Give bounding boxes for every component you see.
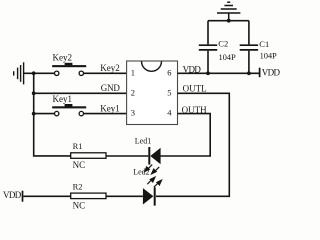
svg-text:R1: R1	[73, 141, 83, 151]
resistor R2	[71, 182, 106, 211]
Led1 emission arrows (down-left)	[145, 165, 160, 174]
svg-text:Key2: Key2	[53, 53, 73, 63]
IC notch	[142, 61, 162, 71]
terminal VDD bottom-left	[3, 190, 23, 202]
svg-text:Key1: Key1	[53, 94, 73, 104]
wire Key2 switch to pin 1	[84, 72, 127, 74]
svg-text:4: 4	[167, 108, 172, 118]
node junction C1/VDD wire	[247, 71, 251, 75]
resistor R1	[71, 141, 106, 170]
wire R2 to Led2 anode	[106, 195, 143, 197]
wire left vertical bus down to R1	[34, 73, 71, 156]
node junction C2/VDD wire	[206, 71, 210, 75]
capacitor C2	[199, 21, 236, 74]
wire GND row bus to pin 2	[34, 92, 127, 94]
node junction bus/GND row	[32, 91, 36, 95]
ground (left earth symbol)	[14, 62, 24, 84]
svg-text:Led2: Led2	[133, 168, 149, 177]
svg-text:GND: GND	[101, 83, 121, 93]
node junction bus/Key2 row	[32, 71, 36, 75]
terminal VDD right	[260, 68, 281, 78]
svg-text:5: 5	[167, 87, 171, 97]
svg-text:Key1: Key1	[100, 103, 120, 113]
svg-text:VDD: VDD	[262, 68, 280, 78]
wire Key1 switch to pin 3	[84, 113, 127, 115]
wire OUTL loop pin5 to Led2 cathode	[156, 93, 229, 196]
wire cap top rail	[208, 20, 249, 22]
capacitor C1	[240, 21, 277, 74]
op-amp U1 (IC body)	[127, 61, 178, 125]
svg-text:C2: C2	[218, 39, 228, 49]
svg-text:1: 1	[131, 67, 135, 77]
wire VDD terminal to R2	[23, 195, 70, 197]
svg-text:104P: 104P	[219, 52, 236, 62]
node junction ground/top rail	[227, 19, 231, 23]
svg-text:NC: NC	[73, 201, 86, 210]
pushbutton Key1	[52, 94, 86, 116]
svg-text:C1: C1	[259, 39, 269, 49]
LED Led2 (points right)	[143, 187, 156, 205]
svg-text:104P: 104P	[260, 51, 277, 61]
node junction bus/Key1 row	[32, 112, 36, 116]
svg-text:Key2: Key2	[100, 63, 120, 73]
svg-text:3: 3	[131, 108, 135, 118]
wire ground to bus (Key2 row left)	[24, 72, 55, 74]
svg-text:2: 2	[131, 87, 135, 97]
ground (top earth symbol)	[217, 2, 240, 21]
wire bus to Key1 switch	[34, 113, 55, 115]
Led2 emission arrows (up-right)	[147, 177, 161, 187]
pushbutton Key2	[52, 53, 86, 76]
svg-text:6: 6	[167, 67, 171, 77]
svg-text:OUTL: OUTL	[183, 83, 207, 93]
svg-text:VDD: VDD	[3, 190, 22, 200]
LED Led1 (points left)	[135, 137, 161, 165]
wire OUTH loop pin4 to Led1 anode	[160, 114, 210, 156]
svg-text:Led1: Led1	[135, 137, 151, 146]
svg-text:NC: NC	[73, 160, 86, 170]
wire VDD row pin6 to terminal	[178, 72, 260, 74]
wire R1 to Led1 cathode	[106, 155, 148, 157]
svg-text:R2: R2	[73, 182, 83, 192]
